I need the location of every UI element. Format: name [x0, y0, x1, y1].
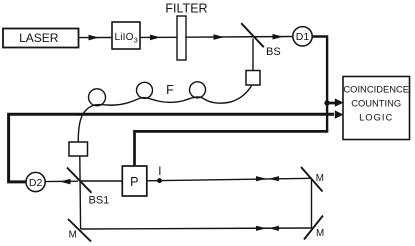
wire BS1 to D2	[45, 180, 78, 182]
beam splitter BS1	[67, 168, 92, 193]
arrow into coincidence box (top input)	[335, 98, 344, 106]
svg-text:D2: D2	[29, 177, 43, 189]
node I dot	[157, 178, 162, 183]
mirror M bottom right	[304, 216, 323, 240]
wire BS down to attenuator	[252, 39, 254, 72]
svg-text:D1: D1	[296, 31, 310, 43]
facing arrows on bottom beam	[256, 226, 267, 231]
svg-text:COINCIDENCE: COINCIDENCE	[343, 84, 409, 95]
svg-text:M: M	[316, 228, 324, 239]
svg-text:BS: BS	[266, 46, 281, 58]
arrow into coincidence box (middle input)	[335, 110, 344, 118]
filter	[177, 16, 186, 60]
wire crystal to filter	[140, 36, 177, 38]
svg-text:P: P	[130, 175, 138, 189]
fiber loop 1	[89, 89, 106, 106]
detector D2	[26, 172, 45, 191]
wire polarizer down through BS1 to mirror	[79, 156, 82, 229]
svg-text:I: I	[158, 166, 161, 178]
wire P to top mirror (I line)	[147, 178, 311, 181]
polarizer rect above BS1	[69, 142, 88, 156]
wire junction to coincidence box	[327, 102, 335, 105]
wire mirror to mirror (right vertical)	[311, 180, 313, 229]
mirror M top right	[301, 167, 323, 192]
wire bottom beam (mirror to mirror)	[81, 228, 312, 229]
arrow filter to BS	[214, 34, 225, 40]
svg-text:FILTER: FILTER	[165, 2, 207, 16]
svg-text:COUNTING: COUNTING	[351, 98, 401, 109]
wire D2 to coincidence (thick: left of D2, up, long right)	[9, 114, 334, 182]
arrow into D2	[60, 179, 71, 185]
facing arrows on I line	[256, 176, 267, 181]
wire P line (thick, up from P then right to D1 wire)	[135, 131, 329, 165]
svg-text:F: F	[166, 83, 174, 97]
coincidence counting logic box	[343, 77, 410, 140]
svg-text:LOGIC: LOGIC	[359, 112, 393, 123]
svg-text:M: M	[69, 230, 77, 241]
wire laser to crystal	[79, 37, 112, 39]
svg-text:BS1: BS1	[89, 195, 110, 207]
svg-text:LASER: LASER	[19, 31, 59, 45]
junction dot on D1 wire	[324, 100, 329, 105]
beam splitter BS	[241, 23, 264, 47]
pockels cell P	[122, 166, 147, 196]
arrow crystal to filter	[150, 35, 161, 41]
wire D1 to coincidence (thick, right then down)	[312, 37, 327, 132]
arrow BS to D1	[273, 34, 284, 40]
fiber F (wavy line)	[78, 85, 252, 142]
crystal LiIO3	[112, 22, 140, 49]
detector D1	[293, 27, 312, 46]
fiber loop 3	[190, 82, 206, 98]
laser box LASER	[3, 29, 79, 48]
mirror M bottom left	[68, 219, 91, 242]
svg-text:M: M	[316, 173, 324, 184]
attenuator square below BS	[246, 71, 260, 86]
arrow laser to crystal	[89, 35, 100, 41]
wire BS1 to P	[81, 180, 122, 182]
wire filter to BS to D1	[186, 36, 293, 39]
fiber loop 2	[137, 82, 153, 98]
